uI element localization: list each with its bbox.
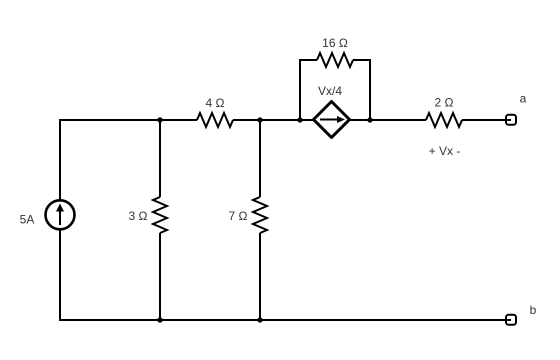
dependent source U1 arrow	[320, 116, 345, 123]
wire 16-ohm loop left riser	[300, 60, 317, 120]
wire left rail lower and bottom rail	[60, 229, 502, 320]
svg-text:16 Ω: 16 Ω	[322, 36, 348, 50]
terminal a wire stub	[497, 119, 511, 121]
svg-text:2 Ω: 2 Ω	[435, 96, 454, 110]
terminal a square	[506, 115, 516, 125]
node at diamond right (370,120)	[367, 117, 372, 122]
svg-text:+ Vx -: + Vx -	[429, 144, 461, 158]
svg-text:a: a	[520, 92, 527, 106]
resistor R4 3ohm	[153, 197, 167, 233]
node at 4ohm left (160,120)	[157, 117, 162, 122]
node bottom 3ohm (160,320)	[157, 317, 162, 322]
resistor R1 4ohm	[197, 113, 233, 127]
resistor R3 2ohm	[426, 113, 462, 127]
wire 3-ohm column lower	[159, 233, 161, 320]
svg-text:b: b	[530, 303, 537, 317]
resistor R2 16ohm	[317, 53, 353, 67]
current source I1 arrow	[56, 204, 64, 226]
svg-text:5A: 5A	[20, 213, 35, 227]
svg-text:Vx/4: Vx/4	[318, 84, 342, 98]
wire top rail right segment	[350, 119, 426, 121]
resistor R5 7ohm	[253, 197, 267, 233]
node at 7ohm top (260,120)	[257, 117, 262, 122]
wire top rail middle segment	[233, 119, 314, 121]
node bottom 7ohm (260,320)	[257, 317, 262, 322]
dependent source U1 diamond	[314, 102, 350, 138]
terminal b square	[506, 315, 516, 325]
wire top rail left segment with corner	[60, 120, 197, 201]
wire 16-ohm loop right riser	[353, 60, 370, 120]
wire 3-ohm column upper	[159, 120, 161, 197]
node at diamond left (300,120)	[297, 117, 302, 122]
current source I1 5A	[46, 200, 75, 229]
terminal b wire stub	[500, 319, 511, 321]
svg-text:3 Ω: 3 Ω	[129, 209, 148, 223]
svg-text:4 Ω: 4 Ω	[206, 96, 225, 110]
wire terminal-a lead	[462, 119, 502, 121]
wire 7-ohm column upper	[259, 120, 261, 197]
svg-text:7 Ω: 7 Ω	[229, 209, 248, 223]
wire 7-ohm column lower	[259, 233, 261, 320]
